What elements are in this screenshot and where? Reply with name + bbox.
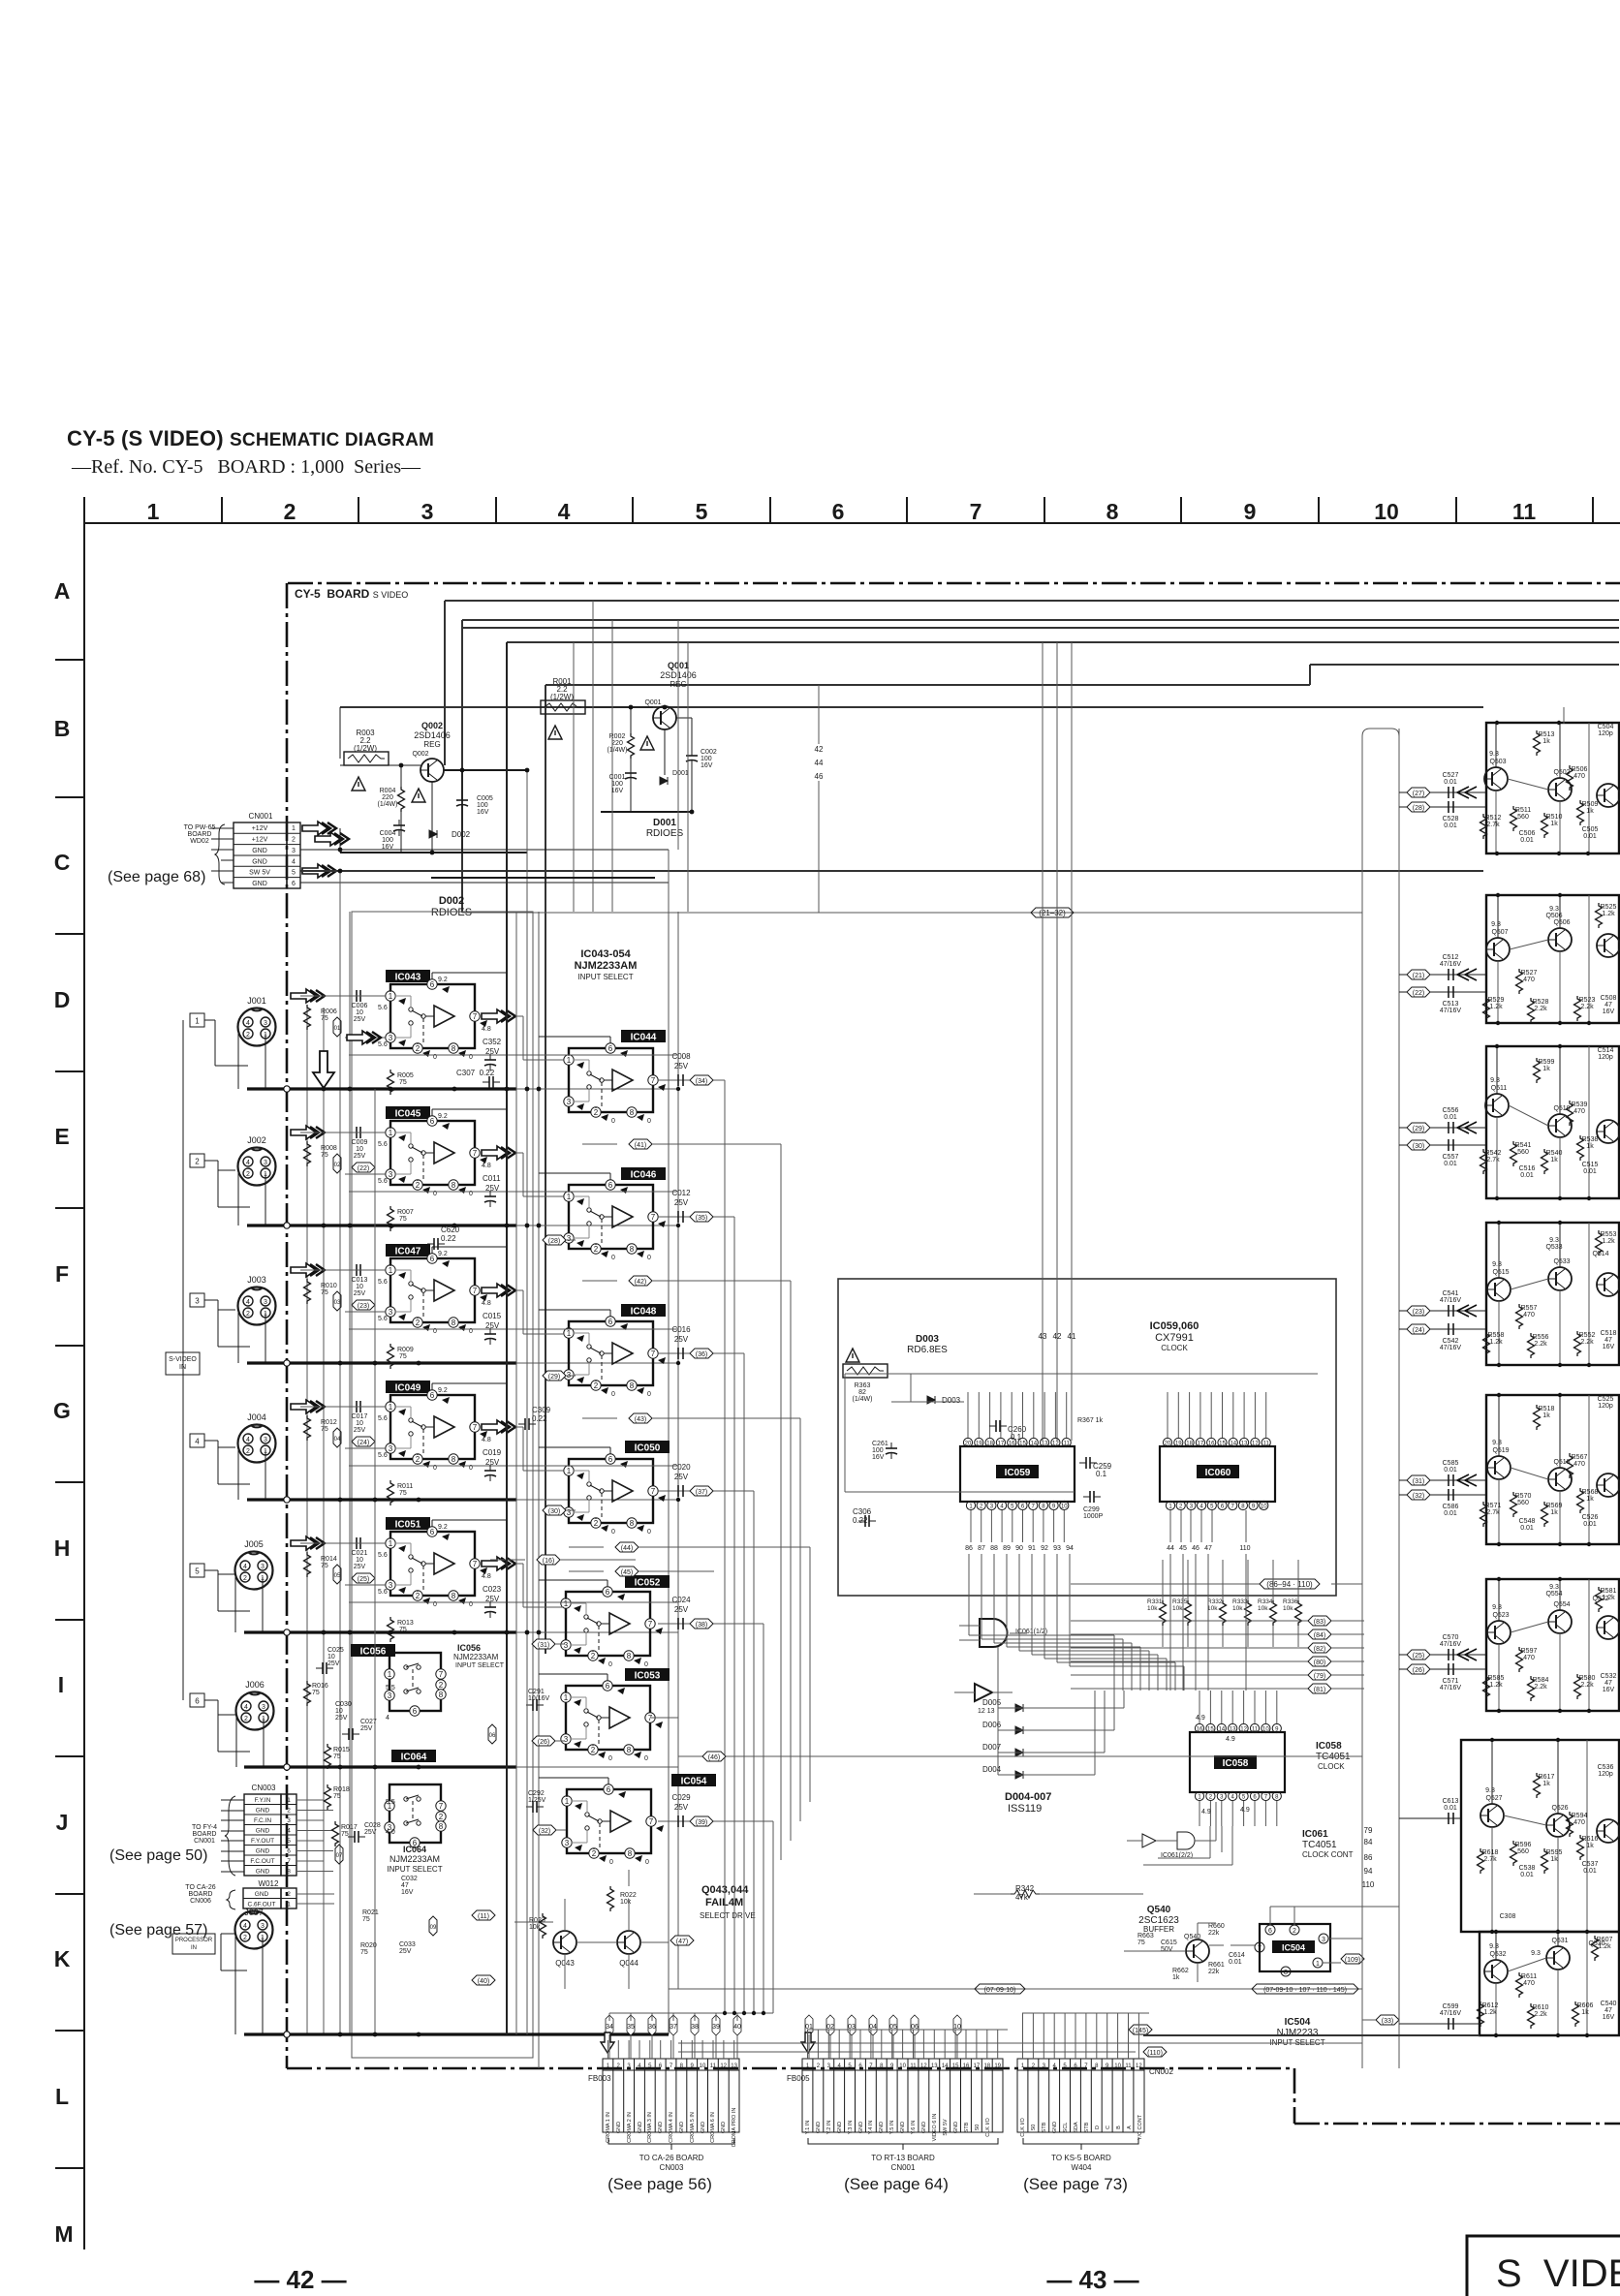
svg-text:GND: GND bbox=[256, 1828, 270, 1835]
svg-text:16V: 16V bbox=[872, 1454, 885, 1461]
svg-text:(16): (16) bbox=[543, 1558, 554, 1565]
svg-text:10k: 10k bbox=[1232, 1605, 1243, 1612]
svg-text:75: 75 bbox=[399, 1627, 407, 1633]
svg-text:STB: STB bbox=[964, 2122, 970, 2132]
svg-text:(See page 64): (See page 64) bbox=[844, 2175, 949, 2193]
diode D007 bbox=[1015, 1749, 1023, 1756]
svg-text:D007: D007 bbox=[982, 1743, 1002, 1752]
svg-text:+12V: +12V bbox=[252, 825, 268, 832]
svg-text:B: B bbox=[54, 716, 71, 741]
svg-text:12: 12 bbox=[920, 2063, 927, 2069]
svg-text:1k: 1k bbox=[1550, 1509, 1558, 1516]
svg-text:10: 10 bbox=[1374, 499, 1399, 524]
hex 86-94-110 bbox=[1071, 1583, 1260, 1585]
svg-text:2.2k: 2.2k bbox=[1580, 1339, 1594, 1346]
col1 row input details bbox=[291, 977, 564, 1095]
svg-text:GND: GND bbox=[252, 881, 267, 887]
svg-text:C030: C030 bbox=[335, 1701, 352, 1708]
svg-text:25V: 25V bbox=[674, 1473, 689, 1481]
svg-text:F.C.OUT: F.C.OUT bbox=[250, 1858, 274, 1865]
svg-text:Q043,044: Q043,044 bbox=[701, 1884, 749, 1896]
svg-text:1: 1 bbox=[287, 1902, 291, 1908]
svg-text:47/16V: 47/16V bbox=[1440, 1297, 1462, 1304]
svg-text:C548: C548 bbox=[1519, 1518, 1536, 1525]
svg-text:10: 10 bbox=[1262, 1727, 1269, 1733]
wire power rail bbox=[339, 707, 341, 759]
svg-text:(38): (38) bbox=[696, 1622, 707, 1629]
svg-text:1.2k: 1.2k bbox=[1602, 1238, 1615, 1245]
svg-text:1: 1 bbox=[147, 499, 160, 524]
svg-text:0.01: 0.01 bbox=[1583, 1521, 1597, 1528]
svg-text:5: 5 bbox=[292, 870, 296, 877]
svg-text:(145): (145) bbox=[1133, 2028, 1148, 2034]
svg-text:B: B bbox=[1116, 2125, 1122, 2129]
svg-text:D003: D003 bbox=[916, 1334, 939, 1345]
svg-text:16V: 16V bbox=[1603, 1687, 1615, 1693]
svg-text:BOARD: BOARD bbox=[188, 831, 212, 838]
svg-text:0.01: 0.01 bbox=[1444, 822, 1457, 829]
svg-text:2: 2 bbox=[292, 837, 296, 844]
svg-text:R660: R660 bbox=[1208, 1923, 1225, 1930]
svg-text:79: 79 bbox=[1364, 1826, 1373, 1835]
svg-text:100: 100 bbox=[477, 802, 488, 809]
svg-text:IC058: IC058 bbox=[1316, 1741, 1342, 1752]
svg-text:46: 46 bbox=[815, 772, 824, 781]
svg-text:CY-5 BOARD S VIDEO: CY-5 BOARD S VIDEO bbox=[295, 587, 408, 601]
svg-text:NJM2233AM: NJM2233AM bbox=[389, 1854, 440, 1864]
svg-text:(42): (42) bbox=[635, 1279, 646, 1286]
svg-text:46: 46 bbox=[1192, 1545, 1199, 1552]
diode D002 bbox=[429, 830, 437, 838]
svg-text:R005: R005 bbox=[397, 1072, 414, 1079]
svg-text:GND: GND bbox=[256, 1848, 270, 1855]
bus verticals mid bbox=[516, 912, 527, 2034]
svg-text:75: 75 bbox=[399, 1079, 407, 1086]
svg-text:(43): (43) bbox=[635, 1416, 646, 1423]
svg-text:R662: R662 bbox=[1172, 1968, 1189, 1974]
hex feedback labels bbox=[582, 1139, 728, 1149]
svg-text:470: 470 bbox=[1523, 1980, 1535, 1987]
svg-text:GND: GND bbox=[638, 2122, 643, 2133]
svg-text:S0: S0 bbox=[1031, 2125, 1037, 2131]
svg-text:Y.6 IN: Y.6 IN bbox=[911, 2121, 917, 2135]
svg-text:R542: R542 bbox=[1485, 1150, 1502, 1157]
col2 input hexes bbox=[543, 1235, 576, 1245]
svg-text:Q527: Q527 bbox=[1485, 1795, 1502, 1802]
svg-text:560: 560 bbox=[1517, 1500, 1529, 1506]
svg-text:25V: 25V bbox=[485, 1321, 500, 1330]
svg-text:12: 12 bbox=[1240, 1727, 1247, 1733]
svg-text:IC504: IC504 bbox=[1285, 2017, 1311, 2028]
gate IC061(1/2) bbox=[980, 1619, 1008, 1647]
svg-text:R594: R594 bbox=[1572, 1813, 1588, 1819]
svg-text:C008: C008 bbox=[671, 1052, 691, 1061]
svg-text:3: 3 bbox=[287, 1817, 291, 1824]
svg-text:R510: R510 bbox=[1546, 814, 1563, 821]
svg-text:R506: R506 bbox=[1572, 766, 1588, 773]
svg-text:22k: 22k bbox=[1208, 1969, 1220, 1975]
svg-text:1000P: 1000P bbox=[1083, 1513, 1104, 1520]
svg-text:IC504: IC504 bbox=[1282, 1943, 1305, 1953]
svg-text:02: 02 bbox=[334, 1163, 341, 1168]
svg-text:14: 14 bbox=[1230, 1442, 1236, 1447]
svg-text:TO RT-13 BOARD: TO RT-13 BOARD bbox=[871, 2154, 935, 2162]
svg-text:C556: C556 bbox=[1443, 1107, 1459, 1114]
svg-text:45: 45 bbox=[1179, 1545, 1187, 1552]
svg-text:470: 470 bbox=[1573, 1461, 1585, 1468]
svg-text:R581: R581 bbox=[1601, 1588, 1617, 1595]
svg-text:5.6: 5.6 bbox=[378, 1279, 388, 1286]
svg-text:47/16V: 47/16V bbox=[1440, 1345, 1462, 1351]
svg-text:INPUT SELECT: INPUT SELECT bbox=[577, 973, 633, 981]
svg-text:C620: C620 bbox=[441, 1226, 460, 1234]
svg-text:88: 88 bbox=[990, 1545, 998, 1552]
svg-text:BOARD: BOARD bbox=[189, 1891, 213, 1898]
svg-text:(23): (23) bbox=[358, 1303, 369, 1310]
pin hex numbers below IC059 bbox=[965, 1545, 1251, 1552]
svg-text:470: 470 bbox=[1523, 977, 1535, 983]
svg-text:R617: R617 bbox=[1539, 1774, 1555, 1781]
svg-text:IC045: IC045 bbox=[395, 1109, 421, 1120]
svg-text:84: 84 bbox=[1364, 1838, 1373, 1846]
svg-text:TO CA-26 BOARD: TO CA-26 BOARD bbox=[639, 2154, 704, 2162]
svg-text:9.3: 9.3 bbox=[1485, 1787, 1495, 1794]
jack J006 bbox=[236, 1692, 274, 1730]
svg-text:10k: 10k bbox=[1283, 1605, 1293, 1612]
svg-text:C532: C532 bbox=[1601, 1673, 1617, 1680]
svg-text:75: 75 bbox=[333, 1793, 341, 1800]
svg-text:15: 15 bbox=[952, 2063, 959, 2069]
svg-text:D: D bbox=[54, 987, 71, 1012]
svg-text:R332: R332 bbox=[1207, 1598, 1223, 1605]
svg-text:47: 47 bbox=[1604, 1337, 1612, 1344]
svg-text:C025: C025 bbox=[327, 1647, 344, 1654]
amplifier cell7 (Q527/Q526) bbox=[1461, 1740, 1619, 1932]
svg-text:IC056: IC056 bbox=[360, 1647, 387, 1658]
svg-text:R007: R007 bbox=[397, 1209, 414, 1216]
svg-text:2: 2 bbox=[284, 499, 296, 524]
svg-text:D003: D003 bbox=[942, 1396, 961, 1405]
svg-text:12: 12 bbox=[1252, 1442, 1259, 1447]
svg-text:0.01: 0.01 bbox=[1444, 1510, 1457, 1517]
svg-text:(80): (80) bbox=[1314, 1660, 1325, 1666]
svg-text:0.01: 0.01 bbox=[1520, 837, 1534, 844]
svg-text:10k: 10k bbox=[1207, 1605, 1218, 1612]
svg-text:R584: R584 bbox=[1533, 1677, 1549, 1684]
svg-text:(46): (46) bbox=[708, 1754, 720, 1761]
svg-text:25V: 25V bbox=[360, 1725, 373, 1732]
svg-text:F.Y.IN: F.Y.IN bbox=[255, 1797, 271, 1804]
hexes above FB003 bbox=[606, 2015, 741, 2035]
svg-text:D002: D002 bbox=[452, 830, 471, 839]
svg-text:D005: D005 bbox=[982, 1698, 1002, 1707]
svg-text:19: 19 bbox=[1175, 1442, 1182, 1447]
svg-text:10k: 10k bbox=[1258, 1605, 1268, 1612]
svg-text:1.2k: 1.2k bbox=[1602, 911, 1615, 917]
box middle bbox=[838, 1279, 1336, 1596]
svg-text:C506: C506 bbox=[1519, 830, 1536, 837]
svg-text:4.9: 4.9 bbox=[1201, 1809, 1211, 1815]
svg-text:R663: R663 bbox=[1137, 1933, 1154, 1939]
svg-text:C585: C585 bbox=[1443, 1460, 1459, 1467]
svg-text:S VIDEO: S VIDEO bbox=[1496, 2252, 1620, 2295]
connector CN002 bbox=[1017, 2059, 1173, 2193]
selector IC056 bbox=[351, 1644, 395, 1658]
svg-text:C017: C017 bbox=[352, 1413, 368, 1420]
svg-text:75: 75 bbox=[321, 1563, 328, 1569]
79 84 86 94 110 stack bbox=[1362, 1826, 1375, 1889]
svg-text:Q554: Q554 bbox=[1545, 1591, 1562, 1598]
svg-text:CROMA 6 IN: CROMA 6 IN bbox=[710, 2112, 716, 2143]
svg-text:11: 11 bbox=[710, 2063, 717, 2069]
svg-text:11: 11 bbox=[1263, 1442, 1270, 1447]
svg-text:C033: C033 bbox=[399, 1941, 416, 1948]
svg-text:2.2k: 2.2k bbox=[1534, 2011, 1547, 2018]
svg-text:CN002: CN002 bbox=[1149, 2067, 1173, 2076]
node 2 box bbox=[190, 1154, 204, 1167]
svg-text:25V: 25V bbox=[485, 1184, 500, 1193]
svg-text:13: 13 bbox=[1230, 1727, 1236, 1733]
svg-text:C537: C537 bbox=[1582, 1861, 1599, 1868]
svg-text:100: 100 bbox=[611, 781, 623, 788]
svg-text:NJM2233AM: NJM2233AM bbox=[453, 1653, 499, 1661]
svg-text:GND: GND bbox=[701, 2122, 706, 2133]
svg-text:Y/C CONT: Y/C CONT bbox=[1137, 2114, 1143, 2140]
svg-text:J005: J005 bbox=[244, 1539, 264, 1549]
svg-text:25V: 25V bbox=[485, 1458, 500, 1467]
svg-text:4.9: 4.9 bbox=[1240, 1807, 1250, 1814]
svg-text:9.3: 9.3 bbox=[1489, 751, 1499, 758]
svg-text:F: F bbox=[55, 1261, 69, 1287]
svg-text:C028: C028 bbox=[364, 1822, 381, 1829]
svg-text:9.3: 9.3 bbox=[1489, 1943, 1499, 1950]
svg-text:CN001: CN001 bbox=[194, 1838, 215, 1845]
svg-text:CLOCK: CLOCK bbox=[1161, 1344, 1188, 1352]
svg-text:R597: R597 bbox=[1521, 1648, 1538, 1655]
svg-text:(35): (35) bbox=[696, 1215, 707, 1222]
svg-text:18: 18 bbox=[1186, 1442, 1193, 1447]
svg-text:C541: C541 bbox=[1443, 1290, 1459, 1297]
op-amp IC043 bbox=[386, 970, 430, 983]
svg-text:0.01: 0.01 bbox=[1444, 1805, 1457, 1812]
svg-text:C299: C299 bbox=[1083, 1506, 1100, 1513]
svg-text:IC059,060: IC059,060 bbox=[1150, 1320, 1199, 1332]
svg-text:0.01: 0.01 bbox=[1444, 1114, 1457, 1121]
svg-text:12: 12 bbox=[1052, 1442, 1059, 1447]
R331-R336 resistors bbox=[1160, 1560, 1302, 1647]
svg-text:39: 39 bbox=[712, 2024, 720, 2031]
svg-text:Y.3 IN: Y.3 IN bbox=[848, 2121, 854, 2135]
svg-text:CROMA 2 IN: CROMA 2 IN bbox=[627, 2112, 633, 2143]
svg-text:5.6: 5.6 bbox=[378, 1415, 388, 1422]
svg-text:GND: GND bbox=[658, 2122, 664, 2133]
svg-text:10: 10 bbox=[356, 1009, 363, 1016]
svg-text:(39): (39) bbox=[696, 1819, 707, 1826]
svg-text:0.01: 0.01 bbox=[1520, 1872, 1534, 1878]
op-amp IC054 bbox=[671, 1774, 716, 1787]
svg-text:TO FY-4: TO FY-4 bbox=[192, 1824, 217, 1831]
svg-text:W012: W012 bbox=[259, 1879, 279, 1888]
svg-text:93: 93 bbox=[1053, 1545, 1061, 1552]
svg-text:SELECT DRIVE: SELECT DRIVE bbox=[700, 1911, 756, 1920]
svg-text:2: 2 bbox=[287, 1808, 291, 1815]
op-amp IC049 bbox=[386, 1381, 430, 1394]
svg-text:C309: C309 bbox=[532, 1406, 551, 1414]
op-amp IC052 bbox=[625, 1575, 670, 1589]
svg-text:1k: 1k bbox=[1542, 1781, 1550, 1787]
svg-text:1k: 1k bbox=[1542, 1066, 1550, 1072]
svg-text:34: 34 bbox=[606, 2024, 613, 2031]
svg-text:R523: R523 bbox=[1579, 997, 1596, 1004]
svg-text:(21): (21) bbox=[1413, 973, 1424, 979]
svg-text:25V: 25V bbox=[485, 1595, 500, 1603]
svg-text:13: 13 bbox=[931, 2063, 938, 2069]
svg-text:470: 470 bbox=[1523, 1312, 1535, 1319]
diode D003 bbox=[927, 1396, 935, 1404]
svg-text:WD02: WD02 bbox=[190, 838, 209, 845]
top ruler bbox=[53, 497, 1620, 2249]
svg-text:6: 6 bbox=[195, 1697, 200, 1706]
svg-text:(1/2W): (1/2W) bbox=[550, 693, 574, 701]
svg-text:14: 14 bbox=[942, 2063, 949, 2069]
svg-text:Q533: Q533 bbox=[1545, 1244, 1562, 1251]
svg-text:STB: STB bbox=[1042, 2122, 1047, 2132]
svg-text:Q533: Q533 bbox=[1553, 1258, 1570, 1265]
svg-text:(31): (31) bbox=[1413, 1478, 1424, 1485]
svg-text:(See page 50): (See page 50) bbox=[109, 1847, 207, 1864]
svg-text:16V: 16V bbox=[401, 1889, 414, 1896]
svg-text:0.01: 0.01 bbox=[1583, 833, 1597, 840]
svg-text:8: 8 bbox=[1284, 1970, 1288, 1976]
svg-text:(83): (83) bbox=[1314, 1619, 1325, 1626]
title bbox=[67, 426, 434, 478]
svg-text:14: 14 bbox=[1030, 1442, 1037, 1447]
svg-text:75: 75 bbox=[333, 1753, 341, 1760]
svg-text:Q532: Q532 bbox=[1489, 1951, 1506, 1958]
svg-text:S-VIDEO: S-VIDEO bbox=[169, 1356, 197, 1363]
feedback verticals bbox=[714, 1144, 810, 1860]
svg-text:IC049: IC049 bbox=[395, 1383, 421, 1394]
svg-text:5.6: 5.6 bbox=[378, 1005, 388, 1011]
capacitor C620 bbox=[427, 1226, 460, 1250]
svg-text:H: H bbox=[54, 1536, 71, 1561]
svg-text:16: 16 bbox=[1208, 1442, 1215, 1447]
svg-text:C518: C518 bbox=[1601, 1330, 1617, 1337]
svg-text:REG: REG bbox=[423, 740, 440, 749]
svg-text:GND: GND bbox=[900, 2122, 906, 2133]
svg-text:10: 10 bbox=[1061, 1505, 1068, 1510]
svg-text:9.2: 9.2 bbox=[438, 1387, 448, 1394]
svg-text:C512: C512 bbox=[1443, 954, 1459, 961]
svg-text:18: 18 bbox=[986, 1442, 993, 1447]
svg-text:CLK I/O: CLK I/O bbox=[1020, 2117, 1026, 2136]
svg-text:11: 11 bbox=[910, 2063, 917, 2069]
svg-text:R596: R596 bbox=[1515, 1842, 1532, 1848]
svg-text:1k: 1k bbox=[1172, 1974, 1180, 1981]
svg-text:C013: C013 bbox=[352, 1277, 368, 1284]
svg-text:9.2: 9.2 bbox=[438, 1524, 448, 1531]
svg-text:25V: 25V bbox=[485, 1047, 500, 1056]
svg-text:J006: J006 bbox=[245, 1680, 265, 1690]
svg-text:C005: C005 bbox=[477, 795, 493, 802]
svg-text:Q530: Q530 bbox=[1588, 1940, 1604, 1947]
svg-text:R009: R009 bbox=[397, 1347, 414, 1353]
svg-text:9.3: 9.3 bbox=[1492, 1604, 1502, 1611]
svg-text:91: 91 bbox=[1028, 1545, 1036, 1552]
svg-text:CLOCK: CLOCK bbox=[1318, 1762, 1345, 1771]
svg-text:I: I bbox=[58, 1672, 64, 1697]
jack wires bbox=[204, 1020, 265, 2034]
transistor Q002 bbox=[421, 759, 444, 782]
svg-text:75: 75 bbox=[321, 1015, 328, 1022]
svg-text:R022: R022 bbox=[620, 1892, 637, 1899]
svg-text:(24): (24) bbox=[1413, 1327, 1424, 1334]
svg-text:1k: 1k bbox=[1586, 808, 1594, 815]
svg-text:R017: R017 bbox=[341, 1824, 358, 1831]
svg-text:GND: GND bbox=[953, 2122, 959, 2133]
svg-text:0.1: 0.1 bbox=[1096, 1470, 1107, 1478]
svg-text:560: 560 bbox=[1517, 1149, 1529, 1156]
svg-text:IC054: IC054 bbox=[681, 1777, 707, 1787]
svg-text:R018: R018 bbox=[333, 1786, 350, 1793]
svg-text:4: 4 bbox=[292, 858, 296, 865]
svg-text:25V: 25V bbox=[354, 1564, 366, 1570]
hex 83-81 rows bbox=[1071, 1616, 1364, 1626]
svg-text:C307 0.22: C307 0.22 bbox=[456, 1069, 495, 1077]
svg-text:(34): (34) bbox=[696, 1078, 707, 1085]
hex 07-09-10 lines bbox=[669, 1988, 1362, 1990]
svg-text:(81): (81) bbox=[1314, 1687, 1325, 1693]
svg-text:47: 47 bbox=[1604, 1002, 1612, 1008]
svg-text:5: 5 bbox=[287, 1838, 291, 1845]
svg-text:05: 05 bbox=[334, 1573, 341, 1579]
svg-text:44: 44 bbox=[815, 759, 824, 767]
svg-text:6: 6 bbox=[292, 881, 296, 887]
board outline dash-dot bbox=[287, 583, 1620, 2124]
amplifier cell5 (Q519/Q518) bbox=[1480, 1395, 1620, 1544]
svg-text:C306: C306 bbox=[853, 1507, 872, 1516]
svg-text:Y.5 IN: Y.5 IN bbox=[889, 2121, 895, 2135]
svg-text:C261: C261 bbox=[872, 1441, 888, 1447]
svg-text:C023: C023 bbox=[483, 1585, 502, 1594]
svg-text:9.2: 9.2 bbox=[438, 977, 448, 983]
svg-text:13: 13 bbox=[1241, 1442, 1248, 1447]
svg-text:R570: R570 bbox=[1515, 1493, 1532, 1500]
svg-text:(30): (30) bbox=[1413, 1143, 1424, 1150]
svg-text:C570: C570 bbox=[1443, 1634, 1459, 1641]
svg-text:R012: R012 bbox=[321, 1419, 337, 1426]
svg-text:IC056: IC056 bbox=[457, 1643, 481, 1653]
svg-text:Q506: Q506 bbox=[1545, 913, 1562, 919]
resistor R363 bbox=[843, 1364, 888, 1378]
resistor R004 bbox=[398, 787, 405, 812]
svg-text:C: C bbox=[54, 850, 71, 875]
svg-text:IC059: IC059 bbox=[1005, 1468, 1031, 1478]
svg-text:J: J bbox=[56, 1810, 69, 1835]
svg-text:R509: R509 bbox=[1582, 801, 1599, 808]
resistor R001 bbox=[541, 700, 585, 714]
svg-text:4.8: 4.8 bbox=[482, 1437, 491, 1443]
svg-text:GND: GND bbox=[616, 2122, 622, 2133]
diode D004 bbox=[1015, 1771, 1023, 1779]
svg-text:(47): (47) bbox=[676, 1939, 688, 1945]
svg-text:R525: R525 bbox=[1601, 904, 1617, 911]
svg-text:1k: 1k bbox=[1586, 1496, 1594, 1503]
amplifier cell1 (Q503/Q502) bbox=[1480, 723, 1620, 853]
svg-text:NJM2233AM: NJM2233AM bbox=[575, 960, 638, 972]
op-amp IC053 bbox=[625, 1668, 670, 1682]
amplifier cell8 (Q532/Q531) bbox=[1478, 1932, 1620, 2035]
